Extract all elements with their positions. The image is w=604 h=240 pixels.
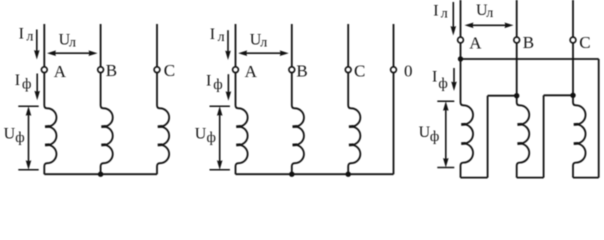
svg-text:I: I <box>432 69 437 86</box>
svg-text:л: л <box>441 7 448 22</box>
svg-text:0: 0 <box>404 61 413 80</box>
svg-text:ф: ф <box>15 130 24 146</box>
svg-text:л: л <box>218 30 225 45</box>
svg-text:U: U <box>419 124 431 141</box>
svg-text:B: B <box>523 33 534 52</box>
svg-text:I: I <box>433 3 438 20</box>
svg-text:I: I <box>210 26 215 43</box>
svg-text:I: I <box>15 72 20 89</box>
svg-text:I: I <box>19 26 24 43</box>
svg-text:U: U <box>195 125 207 142</box>
svg-text:A: A <box>469 33 482 52</box>
svg-text:B: B <box>296 62 307 81</box>
svg-text:C: C <box>579 33 590 52</box>
svg-text:C: C <box>354 62 365 81</box>
svg-text:I: I <box>206 72 211 89</box>
svg-text:B: B <box>106 61 117 80</box>
svg-text:ф: ф <box>438 76 447 92</box>
svg-text:л: л <box>26 29 33 44</box>
svg-text:л: л <box>260 35 267 50</box>
svg-text:C: C <box>164 61 175 80</box>
svg-text:ф: ф <box>430 129 439 145</box>
svg-text:л: л <box>69 36 76 51</box>
svg-text:ф: ф <box>213 77 222 93</box>
svg-text:A: A <box>245 62 258 81</box>
svg-text:ф: ф <box>207 130 216 146</box>
svg-text:л: л <box>486 6 493 21</box>
svg-text:A: A <box>54 62 67 81</box>
svg-text:U: U <box>4 125 16 142</box>
svg-text:ф: ф <box>22 77 31 93</box>
